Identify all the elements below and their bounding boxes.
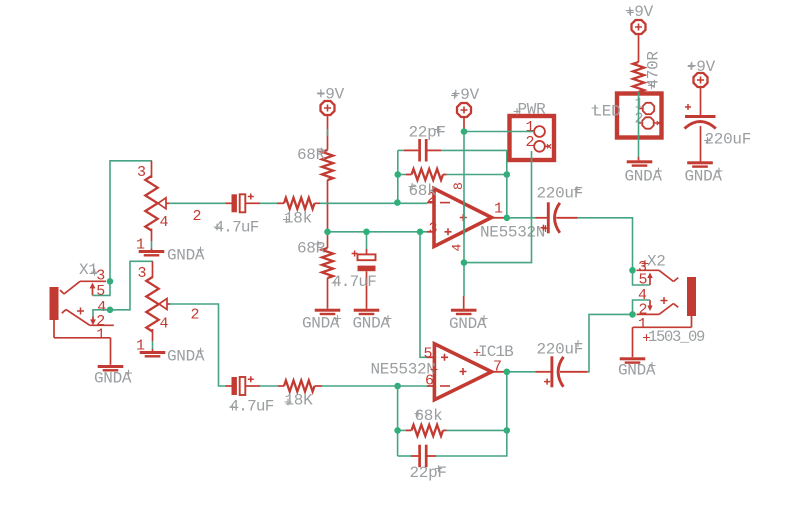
connector PWR (510, 101, 555, 161)
svg-text:GNDA: GNDA (449, 315, 487, 333)
svg-text:LED: LED (593, 103, 621, 121)
svg-text:18k: 18k (284, 210, 312, 228)
svg-text:2: 2 (193, 208, 202, 225)
svg-text:NE5532N: NE5532N (480, 224, 545, 242)
op-amp IC1A NE5532N (427, 182, 549, 251)
wire: pot P2 wiper to 4.7uF C2, net 2 (170, 304, 226, 386)
junction: 68k R5 left (395, 171, 402, 178)
svg-text:8: 8 (451, 182, 466, 190)
wire: 68k R6 right to output leg (447, 429, 507, 431)
wire: +9V P1 to 68R divider top (327, 116, 329, 150)
wire: +9V rail overlay across IC1A symbol (463, 200, 465, 235)
svg-text:68R: 68R (297, 240, 326, 258)
svg-text:1: 1 (494, 201, 503, 218)
potentiometer P1 (upper channel volume) (136, 161, 169, 254)
junction: +9V node above IC1A (461, 128, 468, 135)
svg-text:GNDA: GNDA (302, 315, 340, 333)
svg-text:4.7uF: 4.7uF (215, 219, 259, 237)
wire: X1 pin2/pin4 loop (93, 310, 110, 317)
svg-text:1: 1 (638, 316, 647, 333)
resistor 68k R6 (IC1B feedback) (398, 407, 447, 436)
svg-text:3: 3 (137, 164, 146, 181)
wire: IC1B feedback left leg (397, 386, 399, 456)
svg-text:4: 4 (450, 244, 465, 252)
wire: 18K R4 to IC1B pin 6 (322, 385, 427, 387)
junction: X1 pin 3 node (107, 278, 114, 285)
capacitor 220uF C9 (supply filter, vertical) (685, 104, 752, 162)
connector X1 input jack (50, 261, 114, 365)
svg-text:5: 5 (639, 272, 648, 289)
op-amp IC1B NE5532N (371, 343, 514, 400)
svg-text:GNDA: GNDA (685, 168, 723, 186)
svg-text:4.7uF: 4.7uF (332, 273, 376, 291)
junction: X1 pin 2 node (107, 307, 114, 314)
svg-text:68k: 68k (415, 407, 443, 425)
svg-text:220uF: 220uF (705, 131, 752, 149)
wire: feedback left leg (pin 2 up to 68k/22pF) (397, 150, 399, 202)
wire: IC1A output to 220uF C7 (507, 217, 536, 219)
wire: X2 pin2/pin4 loop (633, 300, 651, 314)
svg-text:GNDA: GNDA (167, 348, 205, 366)
wire: X2 pin3/pin5 loop (633, 270, 651, 285)
junction: X2 pin 2 node (629, 311, 636, 318)
svg-text:68k: 68k (409, 182, 437, 200)
wire: feedback right leg down to IC1A output (506, 150, 508, 217)
svg-text:3: 3 (429, 221, 438, 238)
wire: 22pF right to output leg (441, 149, 507, 151)
svg-text:1503_09: 1503_09 (648, 328, 705, 346)
supply +9V P4 (above 220uF filter) (687, 58, 716, 116)
wire: +9V node to PWR pin 1 (464, 131, 534, 133)
capacitor 220uF C7 (upper output coupling) (536, 185, 584, 234)
wire: 68R upper to divider midpoint node (327, 180, 329, 232)
svg-text:22pF: 22pF (410, 464, 447, 482)
wire: 220uF C8 up to X2 pin 2 (588, 314, 633, 371)
wire: C2 to 18K R4 (260, 385, 278, 387)
junction: IC1B output node (504, 369, 511, 376)
ground GNDA (pot P1) (139, 247, 205, 265)
wire: 68R lower to ground (327, 278, 329, 309)
capacitor 220uF C8 (lower output coupling) (536, 340, 588, 387)
resistor 470R (LED series) (633, 51, 663, 92)
wire: X1 pin 3 up to pot P1 top (110, 161, 152, 281)
svg-text:4.7uF: 4.7uF (230, 398, 274, 416)
connector X2 output jack 1503_09 (633, 253, 706, 358)
wire: IC1B output to 220uF C8 (507, 371, 536, 373)
wire: 470R through LED box to ground (638, 92, 640, 160)
capacitor 4.7uF C2 (lower input coupling) (226, 376, 274, 415)
wire: pot P1 bottom to ground (151, 241, 153, 250)
junction: divider midpoint at pin-3 bias rail (324, 229, 331, 236)
svg-text:X2: X2 (647, 253, 666, 271)
supply +9V P2 (above IC1A) (451, 86, 480, 132)
resistor 68R (lower bias divider) (297, 232, 333, 278)
junction: IC1A pin 2 feedback node (394, 199, 401, 206)
junction: IC1B pin 6 feedback node (394, 383, 401, 390)
wire: ground node stub to GNDA below IC1A (463, 296, 465, 309)
wire: pot P2 bottom to ground (152, 341, 154, 351)
svg-text:PWR: PWR (518, 101, 547, 119)
wire: C1 to 18k R3 (260, 202, 277, 204)
supply +9V P1 (above 68R divider) (316, 86, 345, 116)
svg-text:1: 1 (96, 327, 105, 344)
junction: bypass cap tap on bias rail (363, 229, 370, 236)
ground GNDA (below IC1A) (449, 309, 487, 333)
ground GNDA (X1 sleeve) (94, 365, 132, 388)
capacitor 22pF C5 (IC1A feedback) (398, 124, 446, 162)
wire: bias rail to IC1A pin 3 (328, 231, 428, 233)
svg-text:3: 3 (138, 265, 147, 282)
resistor 18k R3 (upper input) (277, 198, 320, 228)
ground GNDA (X2 sleeve) (618, 357, 656, 379)
junction: 68k R5 right on output leg (504, 171, 511, 178)
resistor 18K R4 (lower input) (278, 380, 322, 409)
svg-text:22pF: 22pF (409, 124, 446, 142)
junction: bias rail to IC1B branch (417, 229, 424, 236)
svg-text:2: 2 (191, 307, 200, 324)
capacitor 22pF C6 (IC1B feedback) (398, 445, 447, 482)
wire: X1 pin3/pin5 loop (93, 281, 111, 295)
wire: bias rail down to IC1B pin 5 (420, 232, 427, 357)
svg-text:5: 5 (96, 283, 105, 300)
ground GNDA (below 4.7uF bypass) (353, 309, 392, 333)
resistor 68k R5 (IC1A feedback) (398, 169, 447, 200)
capacitor 4.7uF C3 (bias bypass, vertical) (332, 232, 377, 309)
wire: X1 pin 2 to pot P2 top (110, 261, 153, 310)
svg-text:NE5532N: NE5532N (371, 361, 436, 379)
ground GNDA (220uF filter) (685, 161, 723, 185)
wire: +9V rail down through IC1A (pin 8 / pin 4 column) (463, 132, 465, 296)
potentiometer P2 (lower channel volume) (136, 261, 170, 354)
connector LED (592, 94, 662, 138)
svg-text:470R: 470R (645, 51, 663, 89)
junction: 68k R6 left (394, 427, 401, 434)
junction: IC1A output node (504, 215, 511, 222)
wire: 220uF C7 to X2 pin 3 (578, 218, 633, 270)
svg-text:IC1B: IC1B (478, 343, 513, 361)
svg-text:GNDA: GNDA (625, 168, 663, 186)
capacitor 4.7uF C1 (upper input coupling) (214, 194, 260, 237)
svg-text:4: 4 (160, 214, 169, 231)
svg-text:GNDA: GNDA (94, 370, 132, 388)
svg-text:2: 2 (526, 134, 535, 151)
ground GNDA (LED) (625, 160, 663, 185)
svg-text:GNDA: GNDA (353, 315, 391, 333)
svg-text:GNDA: GNDA (618, 362, 656, 380)
svg-text:GNDA: GNDA (167, 247, 205, 265)
svg-text:18K: 18K (285, 392, 314, 410)
junction: IC1A pin 4 / PWR pin 2 ground node (461, 259, 468, 266)
junction: 68k R6 right (504, 427, 511, 434)
junction: X2 pin 3 node (629, 267, 636, 274)
wire: PWR pin 2 down to ground node (464, 151, 532, 263)
svg-text:4: 4 (160, 316, 169, 333)
resistor 68R (upper bias divider) (297, 146, 333, 180)
wire: pot P1 wiper to 4.7uF C1, net 2 (169, 203, 226, 225)
supply +9V P3 (above 470R) (625, 3, 654, 62)
wire: 68k right to output leg (447, 174, 507, 176)
ground GNDA (pot P2) (140, 348, 205, 366)
svg-text:220uF: 220uF (537, 185, 584, 203)
svg-text:7: 7 (493, 359, 502, 376)
wire: 22pF C6 right leg up to IC1B output (436, 372, 507, 456)
wire: 18k R3 to IC1A pin 2 (320, 202, 427, 204)
ground GNDA (below lower 68R) (302, 309, 341, 333)
